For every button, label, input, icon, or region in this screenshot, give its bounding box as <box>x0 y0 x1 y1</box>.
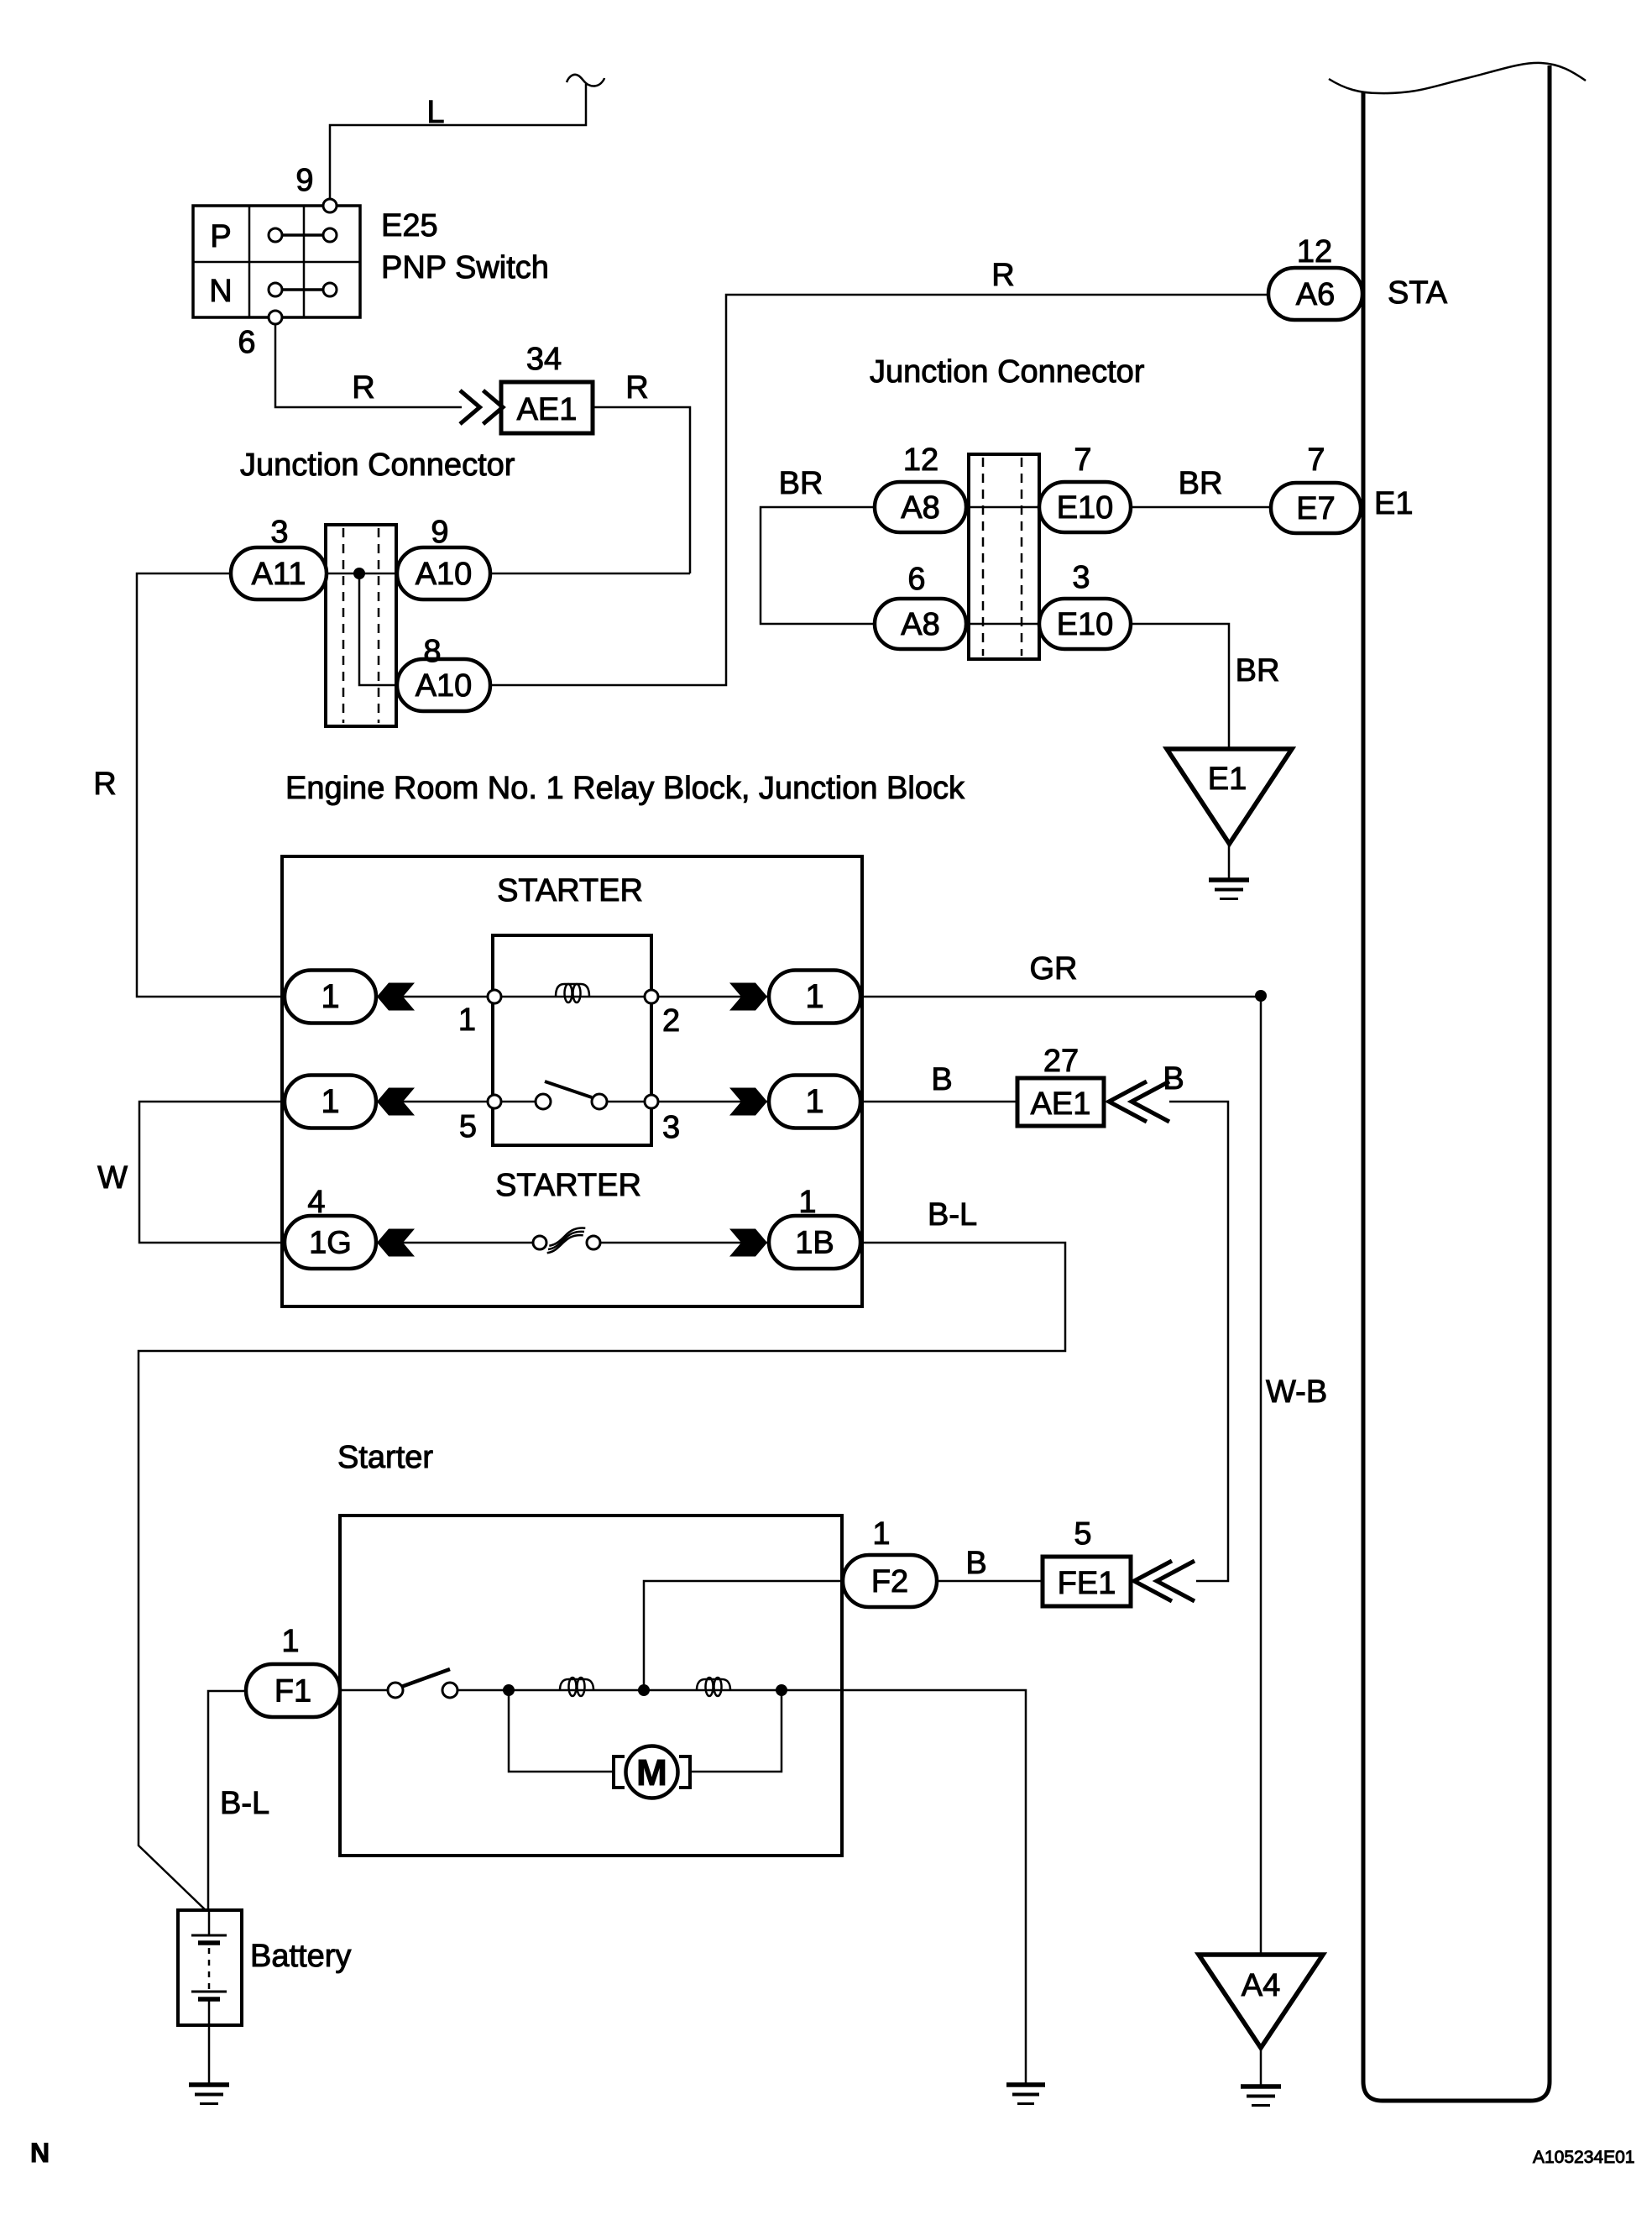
svg-text:34: 34 <box>526 342 562 377</box>
svg-text:12: 12 <box>1297 234 1332 270</box>
svg-text:BR: BR <box>779 466 823 501</box>
svg-text:E1: E1 <box>1374 486 1413 521</box>
svg-text:1: 1 <box>805 978 823 1015</box>
svg-text:F2: F2 <box>871 1564 908 1599</box>
svg-text:1: 1 <box>805 1083 823 1120</box>
svg-text:AE1: AE1 <box>517 392 578 427</box>
svg-text:7: 7 <box>1074 442 1091 478</box>
svg-text:AE1: AE1 <box>1031 1086 1091 1122</box>
svg-text:E1: E1 <box>1208 762 1247 797</box>
svg-text:Starter: Starter <box>337 1440 433 1475</box>
svg-text:E10: E10 <box>1057 490 1114 526</box>
svg-text:5: 5 <box>1074 1516 1091 1552</box>
svg-text:GR: GR <box>1030 951 1078 987</box>
svg-text:1: 1 <box>321 978 339 1015</box>
svg-text:B: B <box>931 1062 952 1097</box>
svg-text:3: 3 <box>270 515 288 550</box>
svg-text:M: M <box>636 1752 667 1793</box>
svg-text:R: R <box>93 767 116 802</box>
svg-text:W-B: W-B <box>1266 1374 1327 1410</box>
svg-text:W: W <box>97 1160 128 1196</box>
svg-text:Junction Connector: Junction Connector <box>240 448 515 483</box>
svg-text:A10: A10 <box>416 668 473 704</box>
svg-text:8: 8 <box>423 634 441 669</box>
svg-text:Junction Connector: Junction Connector <box>870 354 1145 390</box>
svg-text:1B: 1B <box>795 1226 834 1261</box>
svg-text:N: N <box>30 2138 50 2168</box>
svg-text:4: 4 <box>307 1185 325 1220</box>
svg-text:9: 9 <box>295 163 313 198</box>
svg-text:A105234E01: A105234E01 <box>1533 2148 1634 2167</box>
svg-text:6: 6 <box>238 325 255 360</box>
svg-text:A8: A8 <box>901 490 939 526</box>
svg-text:BR: BR <box>1179 466 1223 501</box>
svg-text:9: 9 <box>431 515 448 550</box>
svg-text:A4: A4 <box>1242 1968 1280 2003</box>
svg-text:R: R <box>352 370 374 406</box>
svg-text:A11: A11 <box>252 557 306 592</box>
svg-text:E7: E7 <box>1296 491 1335 526</box>
svg-text:B: B <box>965 1546 986 1581</box>
svg-text:5: 5 <box>459 1109 477 1144</box>
svg-text:R: R <box>991 258 1014 293</box>
svg-text:PNP Switch: PNP Switch <box>381 250 549 285</box>
svg-text:Battery: Battery <box>250 1939 351 1974</box>
svg-text:A10: A10 <box>416 557 473 592</box>
svg-text:STARTER: STARTER <box>495 1168 641 1203</box>
svg-text:3: 3 <box>662 1110 680 1145</box>
svg-text:1G: 1G <box>309 1226 352 1261</box>
svg-text:FE1: FE1 <box>1058 1566 1116 1601</box>
svg-text:BR: BR <box>1236 653 1280 688</box>
svg-text:N: N <box>209 274 232 309</box>
svg-text:1: 1 <box>321 1083 339 1120</box>
svg-text:Engine Room No. 1 Relay Block,: Engine Room No. 1 Relay Block, Junction … <box>285 771 965 806</box>
svg-text:B: B <box>1163 1061 1184 1097</box>
svg-text:STARTER: STARTER <box>497 873 643 908</box>
svg-text:3: 3 <box>1072 560 1090 595</box>
svg-text:12: 12 <box>903 442 938 478</box>
svg-text:F1: F1 <box>274 1674 311 1709</box>
svg-text:R: R <box>625 370 648 406</box>
svg-text:B-L: B-L <box>220 1786 269 1821</box>
svg-text:STA: STA <box>1388 275 1448 311</box>
svg-text:E10: E10 <box>1057 607 1114 642</box>
svg-text:A6: A6 <box>1296 277 1335 312</box>
svg-text:1: 1 <box>872 1516 890 1552</box>
svg-text:7: 7 <box>1307 442 1325 478</box>
svg-text:1: 1 <box>798 1185 816 1220</box>
svg-text:6: 6 <box>907 562 925 597</box>
svg-text:A8: A8 <box>901 607 939 642</box>
svg-text:1: 1 <box>458 1003 476 1038</box>
svg-text:E25: E25 <box>381 208 438 243</box>
svg-text:L: L <box>426 95 444 130</box>
svg-text:2: 2 <box>662 1003 680 1039</box>
svg-text:P: P <box>210 219 231 254</box>
svg-text:1: 1 <box>281 1624 299 1659</box>
svg-text:B-L: B-L <box>928 1197 977 1233</box>
svg-text:27: 27 <box>1043 1044 1079 1079</box>
